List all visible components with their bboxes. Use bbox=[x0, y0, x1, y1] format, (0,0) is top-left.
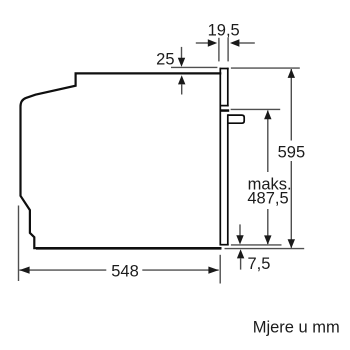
svg-text:7,5: 7,5 bbox=[248, 255, 271, 273]
svg-text:487,5: 487,5 bbox=[247, 189, 288, 207]
svg-text:595: 595 bbox=[278, 144, 306, 162]
svg-text:19,5: 19,5 bbox=[208, 21, 240, 39]
svg-text:Mjere u mm: Mjere u mm bbox=[253, 319, 340, 337]
svg-text:548: 548 bbox=[111, 262, 139, 280]
svg-text:25: 25 bbox=[156, 51, 174, 69]
